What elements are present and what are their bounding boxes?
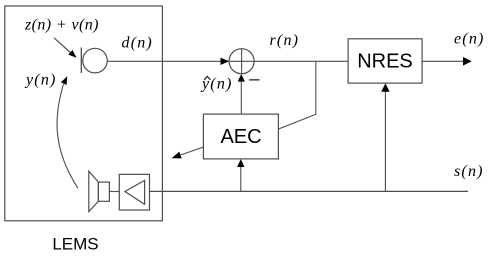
wire s(n) main line [150,190,469,192]
wire s(n) branch up to AEC [240,166,242,191]
loudspeaker driver [98,182,109,201]
summing node cross horizontal [229,60,254,62]
svg-text:y(n): y(n) [24,72,57,89]
svg-text:LEMS: LEMS [52,235,98,254]
svg-text:AEC: AEC [220,126,261,148]
wire AEC output to summing node [240,80,242,114]
amplifier triangle [125,180,145,204]
svg-text:d(n): d(n) [122,34,153,51]
wire microphone to summing node [107,60,222,62]
arrow AEC to loudspeaker path [181,147,203,155]
wire summing node to NRES [254,60,348,62]
amplifier box [119,174,149,210]
wire NRES to output e(n) [422,60,464,62]
NRES block [348,39,422,83]
AEC block [203,114,278,159]
curved arrow y(n) loudspeaker to microphone [57,84,78,188]
svg-text:r(n): r(n) [270,32,300,49]
svg-text:y(n): y(n) [200,76,233,93]
LEMS enclosure box [5,6,163,221]
svg-text:s(n): s(n) [454,163,484,180]
arrow from z(n)+v(n) to microphone [54,38,72,54]
minus sign at summing node [249,79,259,81]
wire s(n) branch up to NRES [384,90,386,191]
svg-text:z(n) + v(n): z(n) + v(n) [24,17,99,34]
svg-text:NRES: NRES [357,51,413,73]
wire driver to amplifier [109,191,119,193]
loudspeaker cone [89,171,99,212]
summing node cross vertical [241,49,243,74]
microphone circle [83,48,108,73]
microphone membrane bar [80,48,82,74]
hat accent over y [204,76,210,79]
wire branch from r(n) down to AEC [279,61,316,129]
svg-text:e(n): e(n) [454,31,485,48]
summing node circle [229,49,254,74]
